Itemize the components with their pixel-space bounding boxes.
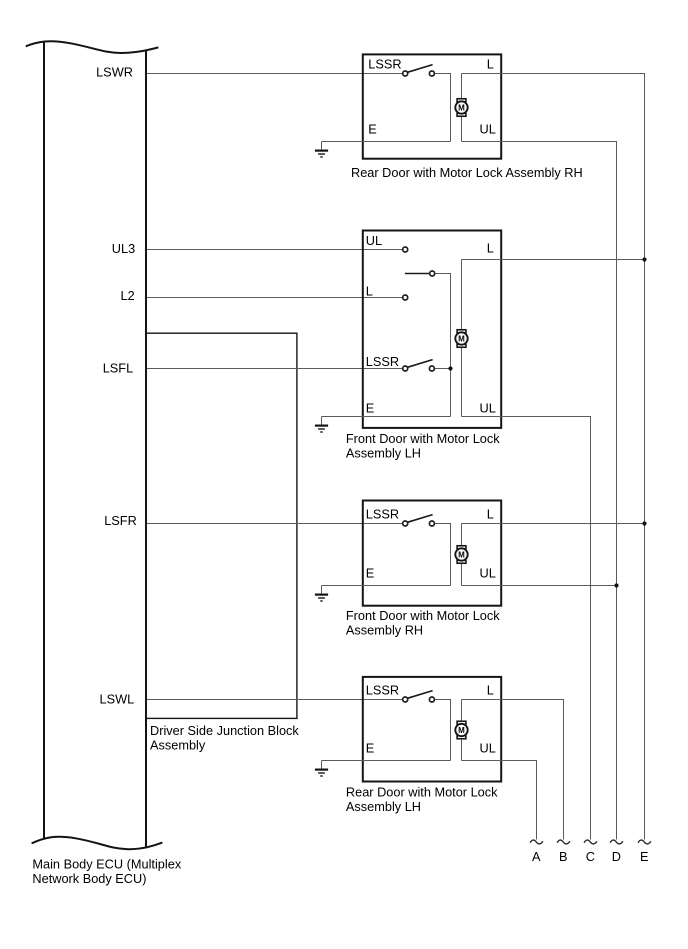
wire: Rear Door with Motor Lock Assembly RH switch to E branch: [432, 74, 451, 142]
svg-text:LSWR: LSWR: [96, 65, 133, 80]
svg-text:A: A: [532, 849, 541, 864]
switch contact circles (Front Door with Motor Lock Assembly RH): [403, 521, 435, 526]
svg-text:D: D: [612, 849, 621, 864]
caption: Front Door with Motor Lock Assembly RH: [346, 608, 500, 637]
svg-text:Assembly RH: Assembly RH: [346, 623, 423, 638]
switch LSSR blade (Front Door with Motor Lock Assembly RH): [407, 515, 432, 523]
box: Front Door with Motor Lock Assembly LH: [363, 231, 501, 428]
ECU U1: Main Body ECU right border: [145, 51, 147, 849]
ground (front LH): [315, 417, 328, 433]
connector break B: [557, 840, 570, 844]
wire: rear LH L to bus B: [462, 700, 564, 840]
ground (Rear Door with Motor Lock Assembly LH): [315, 761, 328, 777]
svg-text:Assembly: Assembly: [150, 738, 206, 753]
svg-text:LSSR: LSSR: [366, 354, 399, 369]
svg-text:Network Body ECU): Network Body ECU): [32, 871, 146, 886]
wire: Rear Door with Motor Lock Assembly RH motor branch: [461, 74, 463, 142]
wire: front LH motor branch: [461, 260, 463, 417]
switch common blade (front LH door lock position switch): [405, 273, 430, 275]
svg-text:M: M: [458, 104, 465, 113]
svg-text:Assembly LH: Assembly LH: [346, 445, 421, 460]
svg-text:UL: UL: [366, 233, 382, 248]
svg-text:C: C: [586, 849, 595, 864]
motor M (Front Door with Motor Lock Assembly RH): [455, 546, 467, 564]
svg-text:E: E: [366, 741, 375, 756]
svg-text:E: E: [366, 401, 375, 416]
wire LSFR: ECU through junction block to front RH LSSR switch: [147, 523, 405, 525]
switch LSSR blade (Rear Door with Motor Lock Assembly RH): [407, 65, 432, 73]
svg-text:Rear Door with Motor Lock Asse: Rear Door with Motor Lock Assembly RH: [351, 165, 583, 180]
caption: Rear Door with Motor Lock Assembly RH: [351, 165, 583, 180]
svg-text:Driver Side Junction Block: Driver Side Junction Block: [150, 723, 299, 738]
wire LSWR: ECU to rear RH lock switch: [147, 73, 405, 75]
wire: rear RH L to bus E: [462, 74, 645, 840]
svg-text:UL3: UL3: [112, 241, 135, 256]
svg-text:L: L: [487, 56, 494, 71]
switch contact circles (front LH): [403, 247, 435, 371]
wire: front LH L to bus E: [462, 259, 645, 261]
svg-text:LSSR: LSSR: [368, 56, 401, 71]
svg-text:L: L: [487, 506, 494, 521]
wire: Front Door with Motor Lock Assembly RH switch to E branch: [432, 524, 451, 586]
switch LSSR blade (Rear Door with Motor Lock Assembly LH): [407, 691, 432, 699]
box: Rear Door with Motor Lock Assembly RH: [363, 54, 501, 158]
svg-text:L: L: [487, 682, 494, 697]
svg-text:B: B: [559, 849, 568, 864]
junction block label: [150, 723, 299, 753]
wire: LSSR switch to junction (front LH): [432, 368, 451, 370]
wire: front LH UL to bus C: [462, 417, 591, 840]
wire: common contact to down branch (front LH): [432, 274, 450, 417]
wire LSWL: ECU through junction block to rear LH LSSR switch: [147, 699, 405, 701]
wire: rear RH UL to bus D: [462, 142, 617, 840]
svg-text:LSFL: LSFL: [103, 360, 133, 375]
motor M (front LH): [455, 330, 467, 348]
wire: Front Door with Motor Lock Assembly RH E line to ground: [322, 585, 451, 587]
svg-text:M: M: [458, 551, 465, 560]
svg-text:Rear Door with Motor Lock: Rear Door with Motor Lock: [346, 785, 498, 800]
connector break E: [638, 840, 651, 844]
caption: Front Door with Motor Lock Assembly LH: [346, 431, 500, 460]
svg-text:M: M: [458, 726, 465, 735]
junction block: Driver Side Junction Block Assembly: [146, 333, 297, 718]
box: Front Door with Motor Lock Assembly RH: [363, 501, 501, 606]
switch LSSR blade (front LH): [407, 360, 432, 368]
wire: Rear Door with Motor Lock Assembly RH E line to ground: [322, 141, 451, 143]
node: front RH UL joins bus D: [614, 583, 618, 587]
svg-text:L: L: [366, 283, 373, 298]
wire: rear LH UL to bus A: [462, 761, 537, 840]
svg-text:Main Body ECU (Multiplex: Main Body ECU (Multiplex: [32, 856, 181, 871]
wire L2: ECU to front LH lock L contact: [147, 297, 405, 299]
svg-text:UL: UL: [480, 741, 496, 756]
ECU U1: Main Body ECU left border: [43, 43, 45, 839]
wire: front RH L to bus E: [462, 523, 645, 525]
motor M (Rear Door with Motor Lock Assembly LH): [455, 721, 467, 739]
connector break C: [584, 840, 597, 844]
ECU U1: torn bottom edge: [32, 837, 163, 849]
svg-text:UL: UL: [480, 401, 496, 416]
wire: Rear Door with Motor Lock Assembly LH E line to ground: [322, 760, 451, 762]
wire LSFL: ECU through junction block to front LH LSSR switch: [147, 368, 405, 370]
svg-text:E: E: [368, 122, 377, 137]
caption: Rear Door with Motor Lock Assembly LH: [346, 785, 498, 814]
node: front LH L joins bus E: [642, 257, 646, 261]
node: front RH L joins bus E: [642, 521, 646, 525]
motor M (Rear Door with Motor Lock Assembly RH): [455, 99, 467, 117]
svg-text:Front Door with Motor Lock: Front Door with Motor Lock: [346, 431, 500, 446]
svg-text:Assembly LH: Assembly LH: [346, 799, 421, 814]
svg-text:LSSR: LSSR: [366, 682, 399, 697]
ECU U1: torn top edge: [26, 41, 159, 53]
switch contact circles (Rear Door with Motor Lock Assembly RH): [403, 71, 435, 76]
switch contact circles (Rear Door with Motor Lock Assembly LH): [403, 697, 435, 702]
box: Rear Door with Motor Lock Assembly LH: [363, 677, 501, 782]
ECU label: Main Body ECU (Multiplex Network Body ECU): [32, 856, 181, 886]
svg-text:M: M: [458, 335, 465, 344]
node: LSSR junction (front LH): [448, 366, 452, 370]
svg-text:E: E: [366, 566, 375, 581]
svg-text:E: E: [640, 849, 649, 864]
svg-text:Front Door with Motor Lock: Front Door with Motor Lock: [346, 608, 500, 623]
wire: Front Door with Motor Lock Assembly RH motor branch: [461, 524, 463, 586]
ground (Front Door with Motor Lock Assembly RH): [315, 586, 328, 602]
wire: front LH E line to ground: [322, 416, 451, 418]
connector break A: [530, 840, 543, 844]
svg-text:LSWL: LSWL: [100, 692, 135, 707]
wire UL3: ECU to front LH lock UL contact: [147, 249, 405, 251]
svg-text:UL: UL: [480, 566, 496, 581]
svg-text:UL: UL: [480, 122, 496, 137]
connector break D: [610, 840, 623, 844]
svg-text:LSSR: LSSR: [366, 506, 399, 521]
wire: Rear Door with Motor Lock Assembly LH switch to E branch: [432, 700, 451, 761]
svg-text:L2: L2: [121, 288, 135, 303]
wire: Rear Door with Motor Lock Assembly LH motor branch: [461, 700, 463, 761]
wire: front RH UL to bus D: [462, 585, 617, 587]
ground (Rear Door with Motor Lock Assembly RH): [315, 142, 328, 158]
svg-text:LSFR: LSFR: [104, 513, 137, 528]
svg-text:L: L: [487, 241, 494, 256]
